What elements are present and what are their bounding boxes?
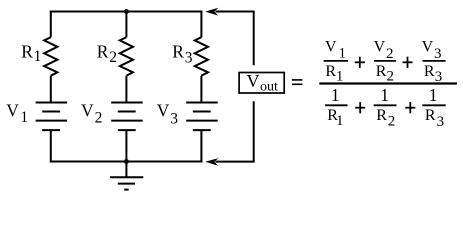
wire branch 3 top lead xyxy=(200,11,202,38)
svg-text:R: R xyxy=(425,107,436,124)
svg-text:R: R xyxy=(97,42,109,62)
wire branch 2 middle lead xyxy=(125,76,127,103)
svg-text:R: R xyxy=(325,63,336,80)
svg-text:1: 1 xyxy=(336,113,344,129)
arrowhead top xyxy=(205,8,218,16)
fraction V1/R1 numerator xyxy=(324,39,348,85)
svg-text:2: 2 xyxy=(95,109,103,126)
svg-text:V: V xyxy=(374,39,386,56)
wire branch 1 bottom lead xyxy=(50,130,52,162)
wire branch 1 middle lead xyxy=(50,76,52,103)
fraction V2/R2 numerator xyxy=(374,39,397,85)
svg-text:R: R xyxy=(21,42,33,62)
plus numerator 1 xyxy=(355,57,365,68)
svg-text:1: 1 xyxy=(339,45,347,61)
svg-text:V: V xyxy=(157,100,170,120)
fraction 1/R2 denominator xyxy=(374,85,397,129)
svg-text:3: 3 xyxy=(185,50,193,67)
fraction 1/R3 denominator xyxy=(422,85,445,130)
svg-text:1: 1 xyxy=(336,69,344,85)
plus denominator 1 xyxy=(355,102,365,113)
svg-text:R: R xyxy=(172,42,184,62)
ground xyxy=(110,162,143,190)
svg-text:1: 1 xyxy=(34,48,42,65)
svg-text:1: 1 xyxy=(429,85,438,105)
svg-text:3: 3 xyxy=(434,46,442,62)
wire branch 1 top lead xyxy=(50,11,52,38)
resistor R2 xyxy=(120,37,133,75)
Vout box xyxy=(239,73,284,94)
svg-text:V: V xyxy=(6,100,19,120)
wire branch 3 middle lead xyxy=(200,76,202,103)
svg-text:3: 3 xyxy=(437,114,445,130)
wire branch 2 top lead xyxy=(125,12,127,38)
svg-text:V: V xyxy=(422,39,434,56)
svg-text:R: R xyxy=(376,63,387,80)
svg-text:1: 1 xyxy=(380,85,389,105)
plus denominator 2 xyxy=(405,102,415,113)
resistor R3 xyxy=(195,37,208,75)
wire top feedback xyxy=(216,12,254,66)
svg-text:V: V xyxy=(81,100,94,120)
svg-text:R: R xyxy=(376,107,387,124)
equals sign xyxy=(292,80,303,84)
node junction dot bottom xyxy=(124,159,129,164)
svg-text:2: 2 xyxy=(109,49,117,66)
battery V2 xyxy=(111,103,143,131)
resistor R1 xyxy=(44,37,57,75)
main fraction bar xyxy=(319,82,457,84)
wire branch 2 bottom lead xyxy=(125,130,127,162)
node junction dot top xyxy=(124,9,129,14)
svg-text:2: 2 xyxy=(388,113,396,129)
svg-text:V: V xyxy=(247,71,260,91)
arrowhead bottom xyxy=(205,158,218,166)
battery V1 xyxy=(36,103,68,131)
svg-text:3: 3 xyxy=(170,111,178,128)
fraction V3/R3 numerator xyxy=(422,39,446,85)
svg-text:2: 2 xyxy=(386,46,394,62)
battery V3 xyxy=(186,103,218,131)
svg-text:1: 1 xyxy=(20,109,28,126)
wire bottom bus xyxy=(50,161,203,163)
wire branch 3 bottom lead xyxy=(200,130,202,162)
plus numerator 2 xyxy=(403,57,413,68)
wire top bus xyxy=(50,11,203,13)
wire bottom feedback xyxy=(216,101,254,161)
svg-text:1: 1 xyxy=(331,85,340,105)
svg-text:R: R xyxy=(424,63,435,80)
fraction 1/R1 denominator xyxy=(325,85,347,129)
svg-text:V: V xyxy=(325,39,337,56)
svg-text:out: out xyxy=(260,79,278,94)
svg-text:2: 2 xyxy=(387,69,395,85)
